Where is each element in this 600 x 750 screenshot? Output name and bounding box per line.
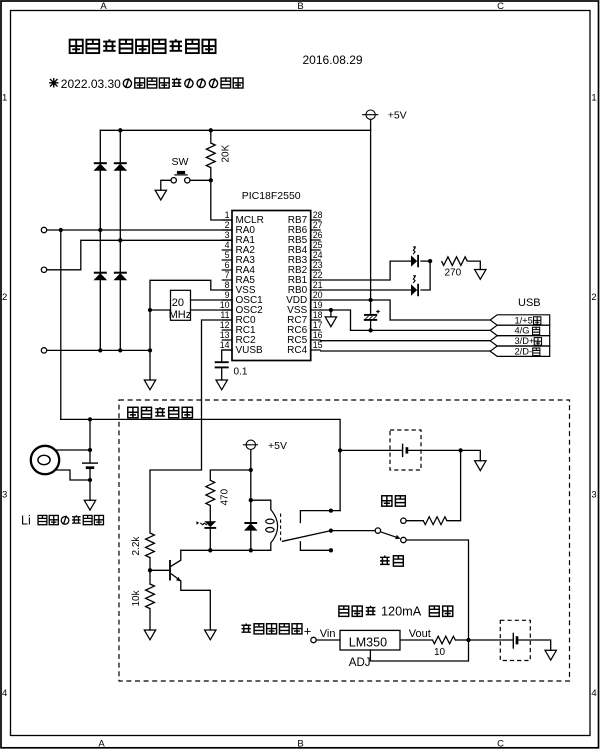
- wire MCLR: [211, 180, 232, 220]
- wire coil top: [251, 500, 271, 509]
- switch S2 arm with arrow: [381, 532, 401, 539]
- wire battery B1 stems: [89, 450, 91, 480]
- wire GND line to USB pin4: [351, 329, 491, 331]
- capacitor C3 stems: [370, 300, 372, 330]
- wire VUSB to C2: [222, 350, 232, 361]
- svg-text:20: 20: [172, 297, 184, 309]
- junction collector/LED3: [208, 548, 212, 552]
- relay contact upper: [329, 508, 333, 512]
- svg-text:470: 470: [220, 488, 231, 505]
- svg-text:0.1: 0.1: [234, 367, 248, 378]
- wire lamp bottom jog: [57, 470, 91, 480]
- svg-text:22: 22: [313, 270, 323, 280]
- svg-text:C: C: [497, 738, 504, 749]
- wire D5 stems: [250, 500, 252, 550]
- wire +5 node to R3: [210, 470, 251, 480]
- junction dot Vout node: [466, 638, 470, 642]
- svg-text:17: 17: [313, 320, 323, 330]
- wire bottom rail to terminal J3: [47, 349, 150, 351]
- relay contact common: [329, 528, 333, 532]
- svg-text:PIC18F2550: PIC18F2550: [242, 190, 301, 202]
- relay coil K1: [266, 510, 281, 544]
- wire +5 node down to D5: [250, 470, 252, 500]
- relay armature: [283, 531, 375, 542]
- junction lamp/battery minus: [88, 478, 92, 482]
- junction collector/D5: [249, 548, 253, 552]
- LAMP AND BATTERY SECTION: [57, 419, 341, 500]
- svg-text:B: B: [297, 1, 303, 12]
- wire battery tap vertical: [60, 230, 62, 419]
- terminal J2: [41, 267, 46, 272]
- title text (kanji): [70, 39, 216, 53]
- resistor R2 270: [442, 257, 468, 266]
- junction RA1/col2: [118, 238, 122, 242]
- wire C2 to ground: [221, 368, 223, 380]
- transistor Q1: [169, 560, 181, 582]
- LED1: [411, 246, 419, 267]
- wire +5V stem: [250, 450, 252, 471]
- svg-text:A: A: [100, 1, 107, 12]
- junction dot VSS stem: [329, 308, 333, 312]
- wire LED3 to collector line: [209, 529, 211, 550]
- ground G2 left column: [144, 380, 155, 390]
- RIGHT SIDE OF CHIP: [321, 261, 491, 351]
- diode D2: [114, 163, 127, 170]
- wire node to B3: [469, 639, 513, 641]
- ground G6 VSS pin19: [325, 317, 336, 327]
- svg-text:14: 14: [220, 340, 230, 350]
- wire +5 line to USB pin1: [390, 319, 490, 321]
- svg-text:8: 8: [225, 280, 230, 290]
- dashed box "not used": [119, 400, 570, 681]
- wire 20K to rail: [210, 130, 212, 143]
- svg-text:18: 18: [313, 310, 323, 320]
- svg-text:RC4: RC4: [287, 345, 307, 356]
- wire VSS pin19: [321, 310, 351, 330]
- svg-text:B: B: [297, 738, 303, 749]
- wire collector: [171, 550, 181, 566]
- resistor R4 2.2k: [146, 533, 155, 558]
- svg-text:LM350: LM350: [349, 636, 387, 650]
- lamp LA1: [31, 446, 59, 474]
- capacitor C3 electrolytic: [364, 310, 380, 320]
- svg-text:1: 1: [591, 92, 596, 103]
- terminal J3: [41, 348, 46, 353]
- svg-text:1/+5: 1/+5: [515, 315, 533, 325]
- wire base: [150, 569, 169, 571]
- svg-text:5: 5: [225, 250, 230, 260]
- wire crystal left pin to ground line: [150, 309, 171, 311]
- junction bottom rail/col2: [118, 348, 122, 352]
- ground G1 under SW: [155, 190, 166, 200]
- battery B1 plates: [82, 463, 98, 468]
- wire RC0 pin11 down to lower circuit: [150, 320, 232, 533]
- svg-text:20K: 20K: [220, 144, 231, 162]
- svg-text:2016.08.29: 2016.08.29: [303, 53, 363, 67]
- svg-text:10k: 10k: [131, 589, 142, 606]
- RELAY CONTACTS AND DISCHARGE/CHARGE: [283, 450, 481, 640]
- resistor R1 20K: [206, 143, 215, 168]
- svg-text:3: 3: [225, 230, 230, 240]
- terminal J4 Vin: [311, 637, 316, 642]
- svg-text:1: 1: [225, 210, 230, 220]
- switch S2 throw discharge: [401, 518, 406, 523]
- terminal J1: [41, 227, 46, 232]
- wire upper contact bracket: [300, 511, 340, 523]
- svg-text:270: 270: [445, 268, 462, 279]
- svg-text:3: 3: [2, 490, 7, 501]
- svg-text:2: 2: [225, 220, 230, 230]
- junction +5V node lower: [249, 468, 253, 472]
- wire VSS19 ground stem: [330, 310, 332, 317]
- svg-text:16: 16: [313, 330, 323, 340]
- svg-text:Li: Li: [21, 513, 31, 527]
- svg-text:4/G: 4/G: [515, 326, 530, 336]
- wire ADJ feedback: [370, 640, 468, 661]
- wire R2 right to ground: [468, 261, 481, 269]
- ground G9 discharge: [475, 461, 486, 471]
- svg-text:25: 25: [313, 240, 323, 250]
- svg-text:11: 11: [220, 310, 229, 320]
- resistor R5 10k: [146, 584, 155, 609]
- relay contact lower: [329, 548, 333, 552]
- ground G8 under emitter: [205, 630, 216, 640]
- svg-text:3/D+: 3/D+: [515, 336, 535, 346]
- wire B3 to ground: [518, 640, 551, 650]
- label constant-current circuit: [339, 606, 376, 617]
- diode D3: [94, 273, 107, 280]
- wire diode column 2: [119, 130, 121, 350]
- junction dot bottom rail: [148, 348, 152, 352]
- USB pin bar 4: [490, 346, 550, 356]
- crystal X1 20MHz resonator box: [171, 290, 191, 320]
- ground G5 right of R2: [475, 270, 486, 280]
- wire VSS pin8 routing: [150, 280, 232, 380]
- svg-text:VUSB: VUSB: [236, 345, 264, 356]
- capacitor C2 0.1: [215, 362, 229, 367]
- svg-text:27: 27: [313, 220, 323, 230]
- wire LED1 cathode to R2 node: [421, 260, 430, 262]
- svg-text:4: 4: [2, 688, 7, 699]
- LED3: [196, 521, 216, 528]
- switch SW pushbutton: [171, 171, 190, 183]
- relay link dashed: [280, 514, 282, 541]
- svg-text:23: 23: [313, 260, 323, 270]
- wire RC5 pin16 to USB pin3: [321, 340, 491, 342]
- LED2: [411, 275, 419, 296]
- wire RB1 pin22 to LED1: [321, 261, 411, 280]
- wire VDD pin20: [321, 300, 390, 320]
- wire crystal to OSC2: [191, 309, 233, 311]
- label 今回不使用: [128, 407, 193, 418]
- wire +5V stem down to VDD: [370, 119, 372, 300]
- junction rail/col2: [118, 128, 122, 132]
- junction rail/20K: [209, 128, 213, 132]
- op-amp U1 PIC18F2550 body: [232, 211, 311, 361]
- junction bottom rail/col1: [98, 348, 102, 352]
- diode D4: [114, 273, 127, 280]
- svg-text:21: 21: [313, 280, 323, 290]
- svg-text:19: 19: [313, 300, 323, 310]
- label 放電: [382, 496, 406, 506]
- wire 2.2k to base: [149, 558, 151, 571]
- wire battery line B2: [340, 449, 402, 451]
- svg-text:24: 24: [313, 250, 323, 260]
- wire RA0 net from terminal J1: [47, 229, 232, 231]
- svg-text:+5V: +5V: [388, 110, 407, 122]
- wire emitter run: [181, 581, 211, 630]
- svg-text:4: 4: [225, 240, 230, 250]
- svg-text:2: 2: [591, 292, 596, 303]
- svg-text:SW: SW: [172, 156, 189, 168]
- USB pin bar 3: [490, 336, 550, 346]
- svg-text:10: 10: [220, 300, 230, 310]
- wire diode column 1: [99, 130, 101, 350]
- svg-text:10: 10: [434, 647, 446, 658]
- wire upper contact to battery line: [339, 450, 341, 510]
- battery B2 in holder: [390, 430, 421, 470]
- svg-text:3: 3: [591, 490, 596, 501]
- svg-text:USB: USB: [518, 297, 541, 309]
- wire SW to MCLR node: [190, 179, 211, 181]
- svg-text:26: 26: [313, 230, 323, 240]
- battery B3 in holder: [500, 620, 530, 660]
- wire LED2 cathode up to R2 node: [421, 261, 430, 290]
- svg-text:4: 4: [591, 688, 596, 699]
- ground G7 under battery: [84, 500, 95, 510]
- MAIN WIRES TOP: [47, 110, 378, 419]
- label 充電: [380, 556, 403, 567]
- note text line: [49, 78, 59, 88]
- junction node MCLR/SW/20K: [209, 178, 213, 182]
- junction dot B2 line right: [458, 448, 462, 452]
- resistor R7 10: [433, 636, 456, 644]
- svg-text:120mA: 120mA: [381, 605, 422, 619]
- junction RA0/battery tap: [59, 228, 63, 232]
- wire lower contact bracket: [300, 542, 331, 551]
- wire coil bottom: [181, 543, 271, 550]
- wire lamp top: [57, 449, 91, 451]
- wire RA1 net from terminal J2: [47, 240, 232, 269]
- svg-text:2: 2: [2, 292, 7, 303]
- junction dot B2 line left: [338, 448, 342, 452]
- wire R3 to LED3: [209, 506, 211, 522]
- ground G10 charge battery: [545, 650, 556, 660]
- resistor R6 discharge: [423, 517, 447, 525]
- svg-text:C: C: [497, 1, 504, 12]
- resistor R3 470: [206, 480, 215, 505]
- svg-text:15: 15: [313, 340, 323, 350]
- svg-text:MHz: MHz: [169, 309, 192, 321]
- diode D1: [94, 163, 107, 170]
- svg-text:2.2k: 2.2k: [131, 536, 142, 556]
- svg-text:2/D-: 2/D-: [515, 347, 533, 357]
- svg-text:Vout: Vout: [409, 628, 431, 640]
- wire SW to ground: [161, 180, 171, 190]
- wire RC4 pin15 to USB pin2: [321, 350, 491, 352]
- wire B1 to ground: [89, 480, 91, 500]
- svg-text:12: 12: [220, 320, 230, 330]
- wire 20K to MCLR node: [210, 168, 212, 181]
- switch S2 throw charge: [401, 537, 406, 542]
- +5V power symbol top: [363, 110, 378, 119]
- wire top power rail: [100, 129, 370, 131]
- wire battery top line across: [61, 419, 340, 450]
- USB pin bar 1: [490, 315, 550, 325]
- junction lamp/battery plus: [88, 448, 92, 452]
- svg-text:ADJ: ADJ: [349, 657, 371, 669]
- svg-text:+: +: [304, 624, 312, 639]
- svg-text:7: 7: [225, 270, 230, 280]
- svg-text:Vin: Vin: [320, 628, 336, 640]
- wire 10k to ground: [149, 609, 151, 631]
- wire Vin: [316, 639, 340, 641]
- junction dot C3 bottom: [368, 328, 372, 332]
- wire lamp branch down: [89, 419, 91, 450]
- regulator U2 LM350: [340, 630, 400, 650]
- USB pin bar 2: [490, 325, 550, 335]
- U1 left pin numbers: [220, 210, 230, 350]
- svg-text:2022.03.30: 2022.03.30: [61, 77, 121, 91]
- junction lamp branch top: [88, 417, 92, 421]
- junction dot VDD node: [368, 298, 372, 302]
- junction RA0/col1: [98, 228, 102, 232]
- ground G3 under 10k: [144, 630, 155, 640]
- ground G4 under C2: [216, 380, 227, 390]
- junction base node: [148, 568, 152, 572]
- svg-text:6: 6: [225, 260, 230, 270]
- svg-text:28: 28: [313, 210, 323, 220]
- svg-text:A: A: [98, 738, 105, 749]
- wire discharge resistor left: [407, 520, 424, 522]
- svg-text:+5V: +5V: [268, 440, 287, 452]
- U1 right pin stubs 15-28: [311, 220, 321, 350]
- wire crystal to OSC1: [191, 299, 233, 301]
- U1 right pin numbers: [313, 210, 323, 350]
- label charge supply +: [241, 623, 301, 633]
- U1 left pin names: [236, 215, 264, 356]
- svg-text:9: 9: [225, 290, 230, 300]
- svg-text:13: 13: [220, 330, 230, 340]
- diode D5 flyback: [244, 523, 257, 530]
- +5V power symbol lower: [243, 440, 258, 449]
- U1 right pin names: [286, 215, 308, 356]
- svg-text:20: 20: [313, 290, 323, 300]
- junction dot LED node: [428, 259, 432, 263]
- switch S2 pole: [375, 528, 380, 533]
- U1 left pin stubs 1-14: [222, 220, 232, 350]
- svg-text:1: 1: [2, 92, 7, 103]
- wire base to 10k: [149, 570, 151, 584]
- wire charge select to LM350 node: [407, 540, 469, 640]
- junction coil top node: [249, 498, 253, 502]
- wire RB0 pin21 to LED2: [321, 289, 411, 291]
- wire R7 to node: [455, 639, 468, 641]
- wire discharge resistor right up: [447, 450, 461, 520]
- junction dot crystal gnd: [148, 308, 152, 312]
- wire Vout: [400, 639, 433, 641]
